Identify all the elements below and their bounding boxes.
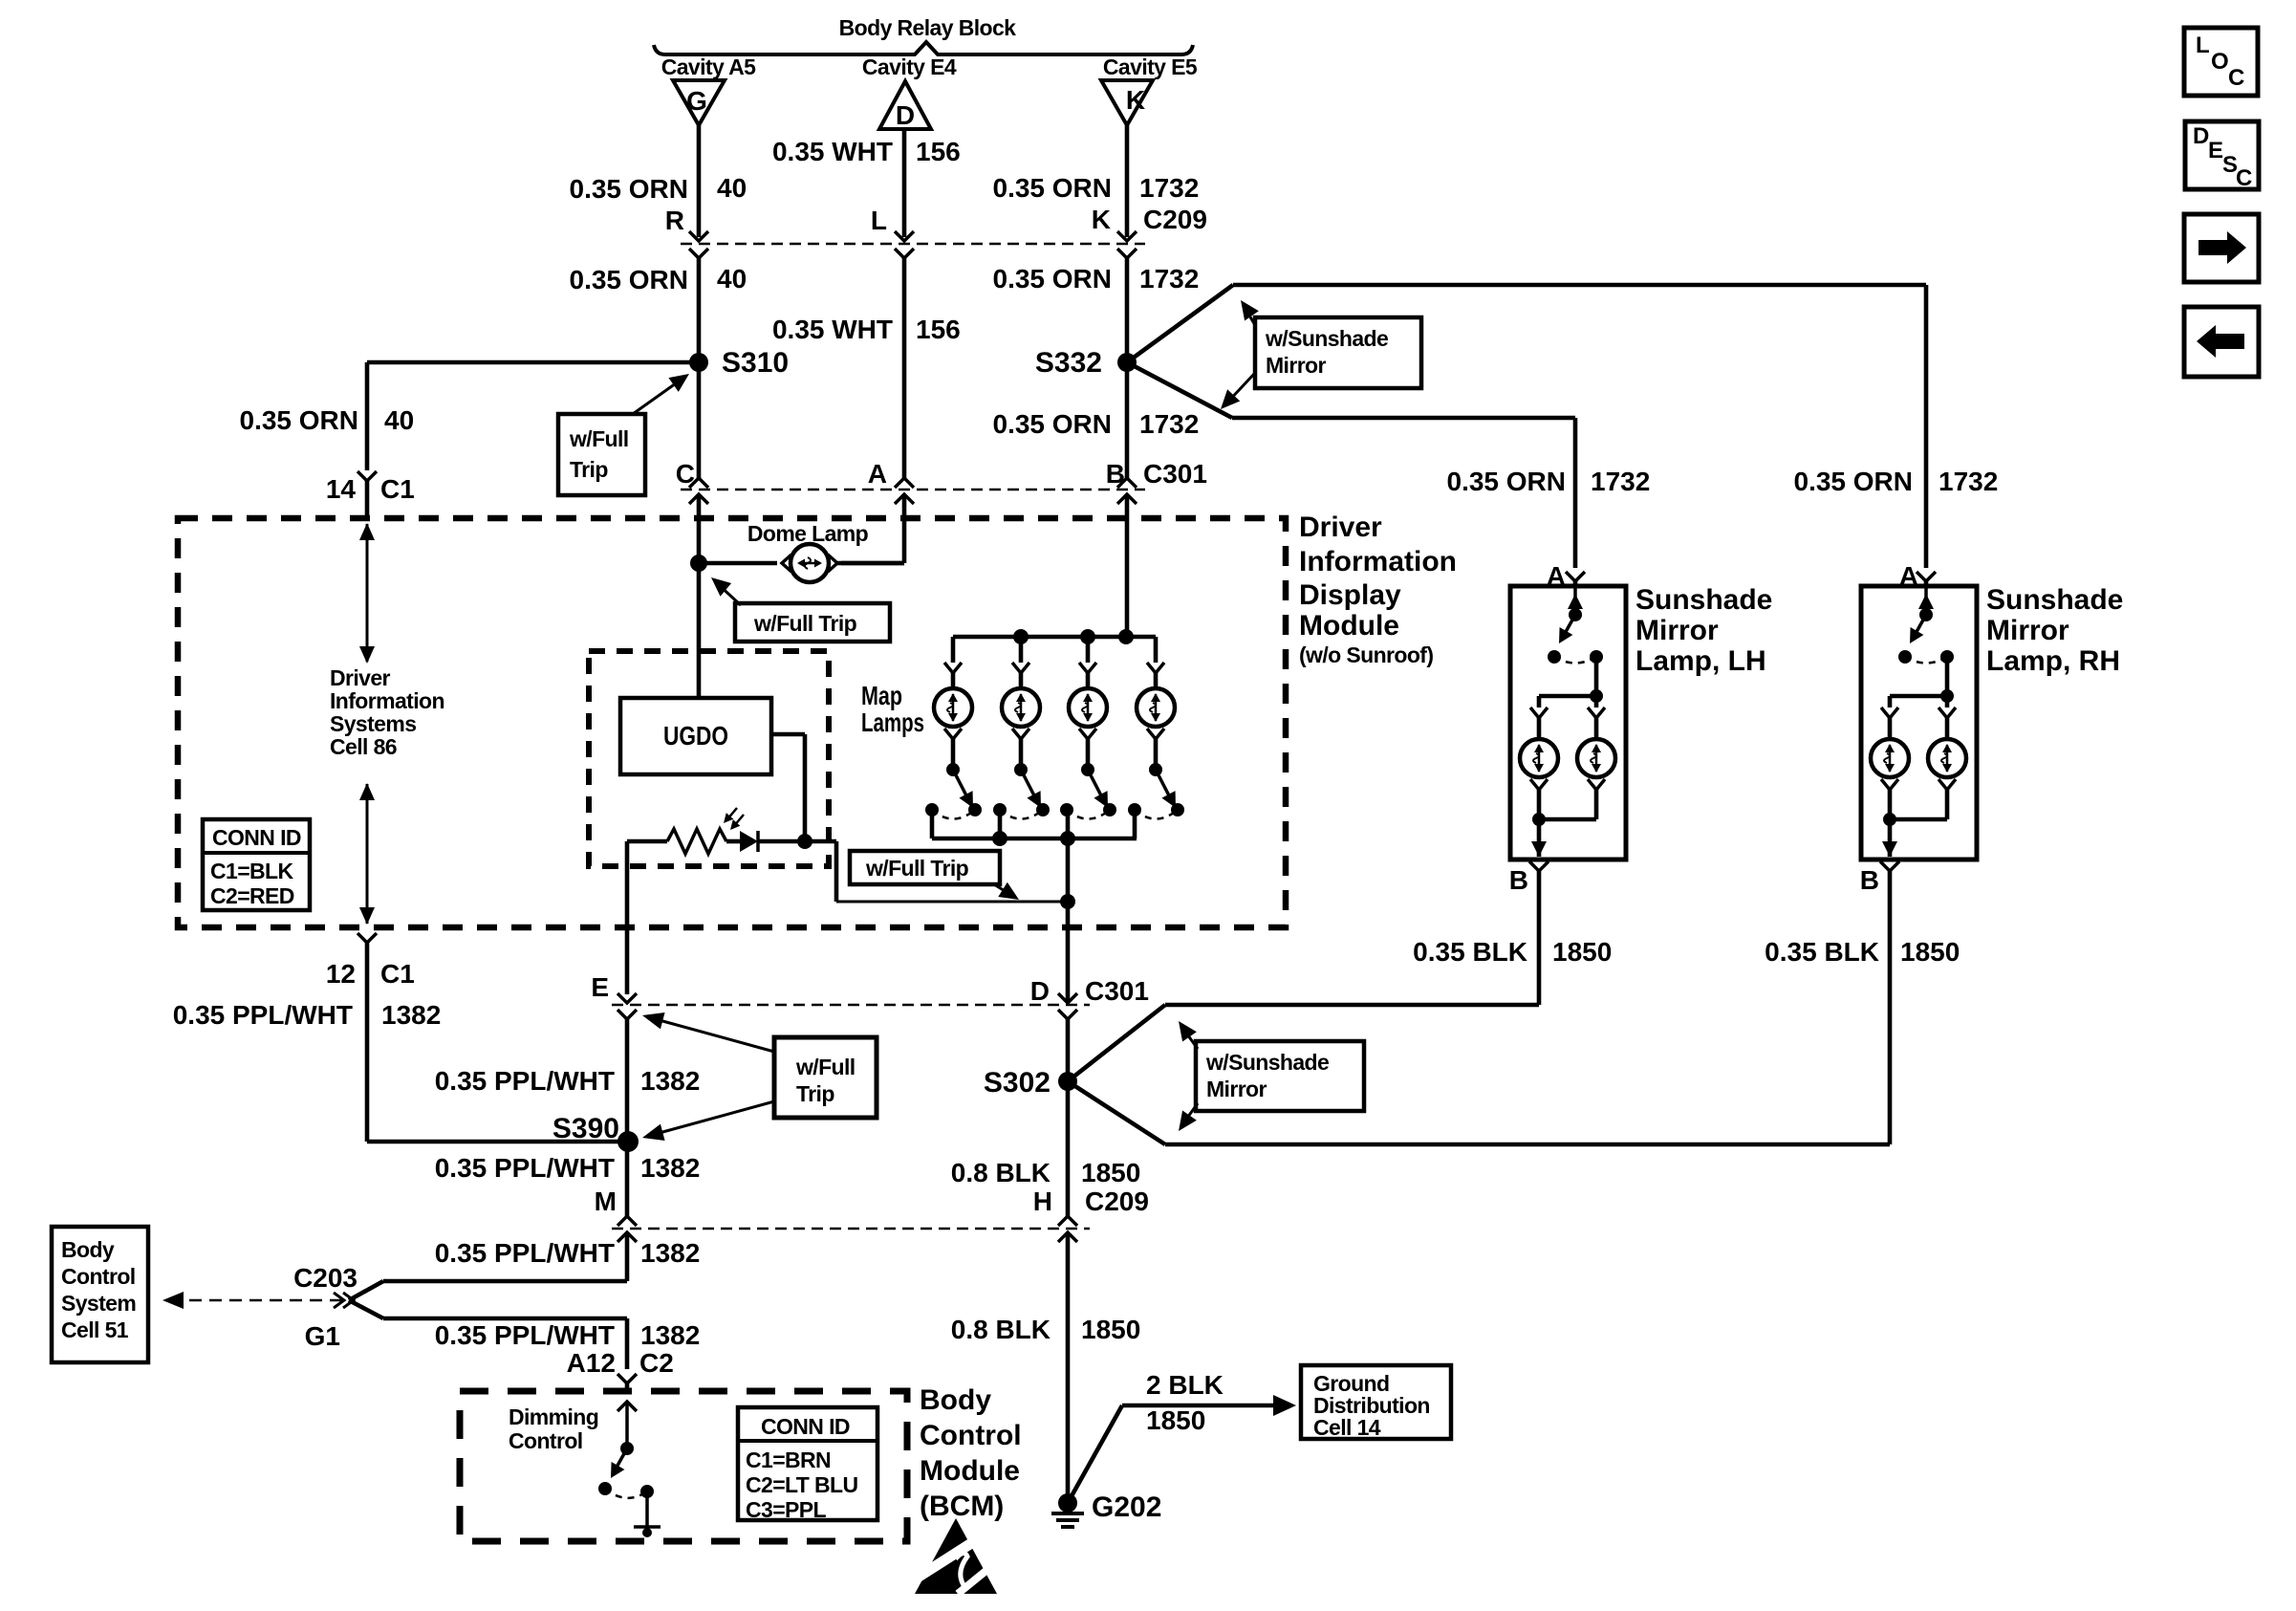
svg-text:C: C	[2236, 165, 2252, 191]
svg-text:R: R	[665, 206, 684, 235]
svg-text:1382: 1382	[640, 1320, 700, 1350]
svg-text:Body Relay Block: Body Relay Block	[839, 15, 1016, 40]
svg-text:Control: Control	[920, 1420, 1022, 1451]
svg-text:w/Sunshade: w/Sunshade	[1265, 326, 1388, 351]
svg-text:0.8 BLK: 0.8 BLK	[951, 1315, 1051, 1344]
svg-text:D: D	[1030, 976, 1050, 1006]
svg-text:K: K	[1092, 205, 1111, 234]
svg-text:156: 156	[916, 137, 961, 166]
svg-text:Information: Information	[330, 688, 444, 713]
svg-text:O: O	[2211, 49, 2229, 75]
svg-text:C1: C1	[380, 474, 415, 504]
svg-text:CONN ID: CONN ID	[212, 825, 301, 850]
svg-text:C2: C2	[639, 1348, 674, 1378]
svg-text:Mirror: Mirror	[1635, 615, 1719, 646]
svg-text:0.35 ORN: 0.35 ORN	[570, 174, 689, 204]
svg-text:0.35 WHT: 0.35 WHT	[772, 315, 893, 344]
svg-text:Cavity A5: Cavity A5	[661, 54, 756, 79]
svg-text:System: System	[61, 1291, 136, 1316]
svg-text:Control: Control	[61, 1264, 136, 1289]
svg-text:0.8 BLK: 0.8 BLK	[951, 1158, 1051, 1187]
svg-text:UGDO: UGDO	[663, 721, 728, 751]
svg-text:0.35 ORN: 0.35 ORN	[993, 173, 1113, 203]
svg-text:G: G	[686, 86, 707, 116]
svg-text:C301: C301	[1085, 976, 1149, 1006]
svg-text:1732: 1732	[1591, 467, 1650, 496]
svg-text:Body: Body	[920, 1384, 991, 1416]
svg-text:0.35 PPL/WHT: 0.35 PPL/WHT	[435, 1320, 615, 1350]
svg-text:1850: 1850	[1552, 937, 1612, 967]
svg-text:0.35 ORN: 0.35 ORN	[240, 405, 359, 435]
svg-text:0.35 ORN: 0.35 ORN	[1794, 467, 1914, 496]
svg-text:C1=BLK: C1=BLK	[210, 859, 293, 883]
svg-text:B: B	[1106, 459, 1125, 489]
svg-text:Dome Lamp: Dome Lamp	[747, 521, 869, 546]
svg-text:Trip: Trip	[570, 457, 608, 482]
svg-text:Driver: Driver	[1299, 512, 1382, 543]
svg-text:Mirror: Mirror	[1266, 353, 1327, 378]
svg-text:Body: Body	[61, 1237, 115, 1262]
svg-text:1850: 1850	[1146, 1405, 1205, 1435]
svg-text:C2=LT BLU: C2=LT BLU	[746, 1472, 857, 1497]
svg-text:Lamp, RH: Lamp, RH	[1986, 645, 2120, 677]
svg-text:E: E	[2208, 138, 2223, 163]
svg-text:C: C	[2228, 65, 2244, 91]
svg-text:E: E	[591, 972, 609, 1002]
svg-text:K: K	[1126, 85, 1145, 115]
svg-text:0.35 PPL/WHT: 0.35 PPL/WHT	[173, 1000, 353, 1030]
svg-text:S332: S332	[1035, 347, 1102, 379]
svg-text:A: A	[868, 459, 887, 489]
svg-text:0.35 PPL/WHT: 0.35 PPL/WHT	[435, 1066, 615, 1096]
svg-text:(w/o Sunroof): (w/o Sunroof)	[1299, 642, 1433, 667]
svg-text:w/Full Trip: w/Full Trip	[753, 611, 857, 636]
svg-text:Cell 14: Cell 14	[1313, 1415, 1381, 1440]
svg-text:B: B	[1509, 865, 1528, 895]
svg-text:1382: 1382	[640, 1066, 700, 1096]
svg-text:0.35 WHT: 0.35 WHT	[772, 137, 893, 166]
svg-text:156: 156	[916, 315, 961, 344]
svg-text:G202: G202	[1092, 1491, 1161, 1523]
svg-text:Control: Control	[509, 1428, 583, 1453]
svg-text:D: D	[2193, 123, 2209, 149]
svg-text:40: 40	[717, 173, 747, 203]
svg-text:S390: S390	[552, 1113, 619, 1144]
svg-text:M: M	[595, 1186, 617, 1216]
svg-text:(BCM): (BCM)	[920, 1491, 1004, 1522]
svg-text:A12: A12	[567, 1348, 616, 1378]
svg-text:14: 14	[326, 474, 357, 504]
svg-text:1382: 1382	[640, 1238, 700, 1268]
svg-text:C209: C209	[1085, 1186, 1149, 1216]
svg-text:C301: C301	[1143, 459, 1207, 489]
svg-text:H: H	[1033, 1186, 1052, 1216]
svg-text:Module: Module	[920, 1455, 1020, 1487]
svg-text:L: L	[2196, 33, 2210, 58]
svg-text:0.35 PPL/WHT: 0.35 PPL/WHT	[435, 1238, 615, 1268]
svg-text:0.35 ORN: 0.35 ORN	[1447, 467, 1567, 496]
svg-text:S310: S310	[722, 347, 789, 379]
svg-text:Systems: Systems	[330, 711, 416, 736]
svg-text:Map: Map	[861, 681, 902, 710]
svg-text:Mirror: Mirror	[1206, 1077, 1267, 1101]
svg-text:Cell 51: Cell 51	[61, 1317, 129, 1342]
svg-text:2 BLK: 2 BLK	[1146, 1370, 1224, 1400]
svg-text:0.35 BLK: 0.35 BLK	[1413, 937, 1527, 967]
svg-text:w/Full Trip: w/Full Trip	[865, 856, 969, 881]
svg-text:B: B	[1860, 865, 1879, 895]
svg-text:0.35 ORN: 0.35 ORN	[993, 264, 1113, 294]
svg-text:Module: Module	[1299, 610, 1399, 642]
svg-text:40: 40	[717, 264, 747, 294]
svg-text:S302: S302	[984, 1067, 1051, 1099]
svg-text:Lamp, LH: Lamp, LH	[1635, 645, 1766, 677]
svg-text:Mirror: Mirror	[1986, 615, 2069, 646]
svg-text:1850: 1850	[1900, 937, 1960, 967]
svg-text:0.35 ORN: 0.35 ORN	[993, 409, 1113, 439]
svg-text:Sunshade: Sunshade	[1986, 584, 2123, 616]
svg-text:Driver: Driver	[330, 665, 391, 690]
svg-text:40: 40	[384, 405, 414, 435]
svg-text:0.35 PPL/WHT: 0.35 PPL/WHT	[435, 1153, 615, 1183]
svg-text:1732: 1732	[1139, 409, 1199, 439]
svg-text:C1=BRN: C1=BRN	[746, 1448, 831, 1472]
svg-text:1732: 1732	[1939, 467, 1998, 496]
svg-text:L: L	[871, 206, 887, 235]
svg-text:G1: G1	[305, 1321, 340, 1351]
svg-text:Information: Information	[1299, 546, 1457, 577]
svg-text:Cavity E5: Cavity E5	[1103, 54, 1198, 79]
svg-text:1382: 1382	[381, 1000, 441, 1030]
svg-text:0.35 BLK: 0.35 BLK	[1765, 937, 1879, 967]
svg-text:w/Sunshade: w/Sunshade	[1205, 1050, 1329, 1075]
svg-text:Sunshade: Sunshade	[1635, 584, 1772, 616]
svg-text:0.35 ORN: 0.35 ORN	[570, 265, 689, 294]
svg-text:C203: C203	[293, 1263, 357, 1293]
svg-text:C3=PPL: C3=PPL	[746, 1497, 827, 1522]
svg-text:Trip: Trip	[796, 1081, 834, 1106]
svg-text:1850: 1850	[1081, 1158, 1140, 1187]
svg-text:1382: 1382	[640, 1153, 700, 1183]
svg-text:Lamps: Lamps	[861, 708, 924, 737]
svg-text:C1: C1	[380, 959, 415, 989]
svg-text:Dimming: Dimming	[509, 1404, 598, 1429]
svg-text:12: 12	[326, 959, 356, 989]
svg-text:C: C	[676, 459, 695, 489]
svg-text:Display: Display	[1299, 579, 1401, 611]
svg-text:Cell 86: Cell 86	[330, 734, 397, 759]
svg-text:1732: 1732	[1139, 264, 1199, 294]
svg-text:w/Full: w/Full	[569, 426, 629, 451]
svg-text:C209: C209	[1143, 205, 1207, 234]
svg-text:w/Full: w/Full	[795, 1055, 856, 1079]
svg-text:D: D	[896, 100, 915, 130]
svg-text:Cavity E4: Cavity E4	[862, 54, 957, 79]
svg-text:1850: 1850	[1081, 1315, 1140, 1344]
svg-text:C2=RED: C2=RED	[210, 883, 294, 908]
svg-text:CONN ID: CONN ID	[761, 1414, 850, 1439]
svg-text:1732: 1732	[1139, 173, 1199, 203]
